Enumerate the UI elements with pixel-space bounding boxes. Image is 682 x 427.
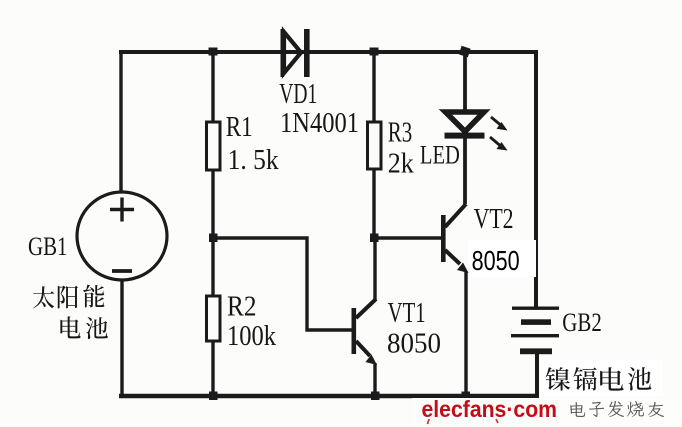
- svg-text:R1: R1: [226, 112, 253, 143]
- wire left lower (GB1 negative lead): [120, 279, 123, 396]
- label NiCd battery: [546, 367, 652, 390]
- svg-text:LED: LED: [420, 141, 460, 170]
- svg-text:100k: 100k: [227, 321, 276, 352]
- wire node C to VT1 collector: [373, 238, 376, 300]
- GB1 minus terminal: [112, 269, 132, 273]
- svg-text:1N4001: 1N4001: [280, 108, 359, 139]
- svg-text:VT1: VT1: [388, 298, 426, 329]
- wire R3 to node C: [372, 169, 375, 238]
- svg-text:8050: 8050: [472, 245, 520, 276]
- wire R1 to node B: [211, 170, 214, 238]
- svg-text:VT2: VT2: [474, 204, 514, 235]
- wire LED to VT2 collector: [463, 138, 467, 204]
- label dianchi (battery): [60, 316, 108, 339]
- node top of R3 branch: [370, 48, 379, 56]
- resistor R2: [207, 296, 221, 341]
- diode VD1: [281, 29, 310, 77]
- wire node C to VT2 base: [374, 236, 443, 239]
- svg-text:R2: R2: [227, 292, 257, 323]
- wire right rail: [534, 50, 538, 307]
- node B (R1/R2/base link junction): [209, 234, 218, 243]
- transistor VT2: [441, 204, 469, 396]
- wire left upper (GB1 positive lead): [119, 50, 122, 193]
- resistor R3: [368, 122, 382, 169]
- wire top to R3: [372, 52, 375, 122]
- LED diode symbol: [445, 112, 485, 139]
- resistor R1: [207, 122, 221, 170]
- svg-text:1. 5k: 1. 5k: [228, 145, 279, 176]
- svg-text:VD1: VD1: [279, 79, 317, 110]
- svg-text:8050: 8050: [387, 329, 441, 360]
- wire battery to bottom rail: [535, 354, 539, 396]
- svg-text:R3: R3: [388, 118, 413, 149]
- wire node B to R2: [211, 238, 214, 296]
- GB1 plus terminal: [110, 198, 134, 222]
- wire R2 to bottom rail: [211, 341, 214, 396]
- wire top to LED: [463, 52, 467, 112]
- node top of R1 branch: [209, 48, 218, 56]
- solar battery GB1 circle: [77, 192, 167, 280]
- white patch behind NiCd label: [541, 360, 663, 396]
- wire bottom rail: [119, 394, 539, 399]
- wire node B to VT1 base: [215, 238, 352, 330]
- watermark dianzifashaoyou: [570, 401, 664, 417]
- transistor VT1: [352, 299, 378, 396]
- svg-text:elecfans·com: elecfans·com: [422, 396, 558, 422]
- svg-text:GB1: GB1: [28, 232, 68, 261]
- node VT2 emitter at bottom rail: [462, 392, 471, 401]
- white patch behind 8050: [468, 240, 536, 277]
- watermark band: [412, 398, 682, 422]
- battery GB2: [511, 307, 559, 355]
- wire top rail: [119, 50, 536, 54]
- node VT1 emitter at bottom rail: [371, 392, 380, 401]
- svg-text:2k: 2k: [388, 149, 414, 180]
- LED light arrows: [490, 117, 508, 151]
- watermark red accents: [428, 419, 499, 424]
- svg-text:GB2: GB2: [562, 308, 602, 337]
- node bottom of R2: [209, 392, 218, 401]
- wire top to R1: [211, 52, 214, 122]
- node top of LED branch: [459, 46, 471, 57]
- label taiyangneng (solar): [33, 285, 104, 309]
- node C (R3/VT1 collector/VT2 base): [370, 234, 379, 243]
